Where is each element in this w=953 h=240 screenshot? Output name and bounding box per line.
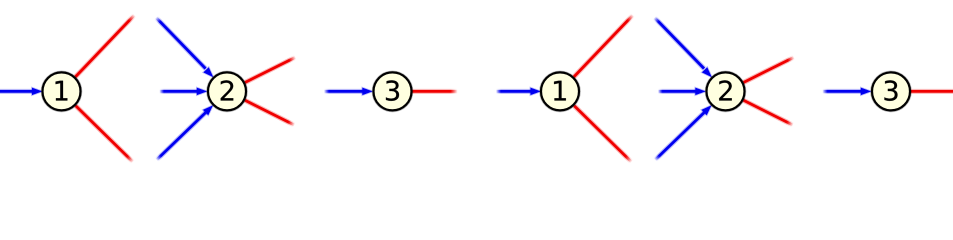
wire red edge node 1a to bottom (76, 106, 133, 162)
node 3b (872, 72, 910, 110)
node 2b (707, 72, 745, 110)
arrowhead blue bottom into node 2b (702, 106, 712, 116)
wire red edge node 2b up-right (744, 57, 795, 82)
arrowhead blue top into node 2b (702, 67, 712, 77)
wire blue edge into node 1a (cropped at left) (0, 89, 32, 94)
node 1b (541, 72, 579, 110)
wire red edge node 1b to top (574, 15, 633, 77)
wire red edge out of node 3b (cropped at right) (911, 89, 953, 94)
node 1a (43, 72, 81, 110)
node 3a (374, 72, 412, 110)
wire blue edge top to node 2a (156, 18, 206, 69)
wire blue edge into node 1b (496, 89, 531, 94)
wire blue edge into node 2b (658, 89, 696, 94)
arrowhead blue into node 3a (362, 88, 372, 95)
wire red edge node 1b to bottom (574, 106, 631, 162)
arrowhead blue into node 1b (531, 88, 541, 95)
arrowhead blue into node 1a (32, 88, 42, 95)
arrowhead blue top into node 2a (204, 67, 214, 77)
wire blue edge into node 3a (324, 89, 363, 94)
node 2a (208, 72, 246, 110)
wire blue edge top to node 2b (655, 18, 705, 69)
wire blue edge bottom to node 2b (655, 113, 704, 161)
wire red edge node 2a down-right (245, 100, 295, 125)
wire blue edge into node 2a (160, 89, 198, 94)
arrowhead blue bottom into node 2a (203, 106, 213, 116)
wire red edge node 2a up-right (245, 57, 296, 82)
arrowhead blue horizontal into node 2b (695, 88, 705, 95)
wire blue edge into node 3b (823, 89, 862, 94)
wire red edge node 2b down-right (744, 100, 794, 125)
wire red edge out of node 3a (412, 89, 458, 94)
arrowhead blue into node 3b (861, 88, 871, 95)
arrowhead blue horizontal into node 2a (197, 88, 207, 95)
wire red edge node 1a to top (75, 15, 134, 77)
wire blue edge bottom to node 2a (157, 113, 206, 161)
